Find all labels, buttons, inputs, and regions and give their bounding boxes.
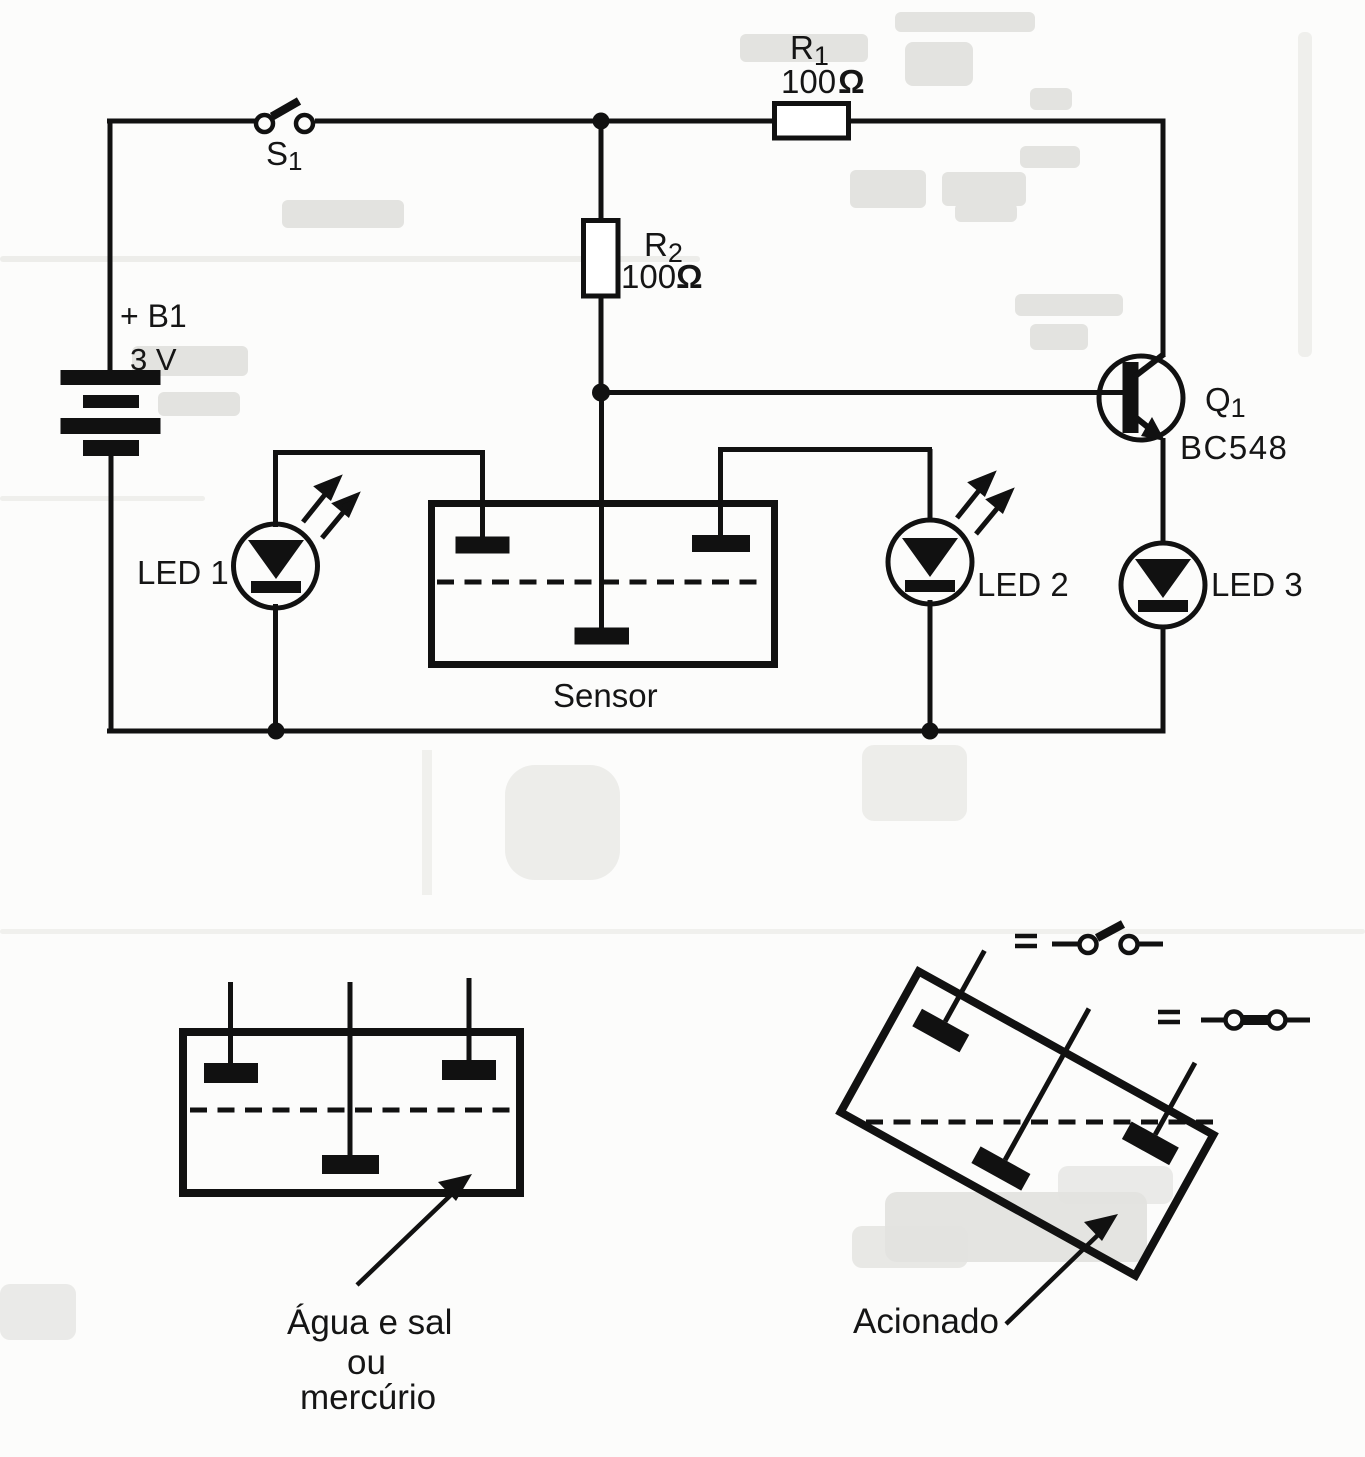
- LED1 emission arrows: [303, 479, 356, 538]
- tilted sensor group (actuated): [841, 924, 1240, 1275]
- sensor right electrode: [692, 452, 750, 552]
- resistor R1: [775, 104, 849, 139]
- annotation arrow acionado: [1006, 1214, 1118, 1324]
- tilted right electrode: [1122, 1050, 1219, 1165]
- svg-text:BC548: BC548: [1180, 429, 1288, 466]
- wire top rail left segment: [107, 119, 257, 124]
- legend closed switch equivalence: [1158, 1012, 1310, 1029]
- svg-text:Água e sal: Água e sal: [287, 1303, 452, 1342]
- sensor left electrode: [456, 455, 510, 554]
- wire left vertical lower (battery minus): [109, 456, 114, 731]
- wire bottom rail: [107, 729, 1166, 734]
- LED LED2: [888, 449, 972, 731]
- wire top rail right segment: [847, 119, 1166, 124]
- svg-text:Acionado: Acionado: [853, 1302, 999, 1341]
- legend open switch equivalence: [1015, 924, 1163, 953]
- svg-text:mercúrio: mercúrio: [300, 1378, 436, 1417]
- wire base horizontal: [601, 390, 1123, 395]
- wire top rail middle segment: [315, 119, 777, 124]
- sensor liquid level dashed line: [437, 580, 766, 585]
- wire R2 lower lead: [599, 294, 604, 394]
- wire sensor right electrode to LED2: [718, 447, 932, 452]
- wire left vertical (battery plus): [108, 119, 113, 372]
- wire emitter to LED3: [1161, 438, 1166, 544]
- lower-left liquid level dashed line: [190, 1108, 514, 1113]
- lower-left left electrode: [204, 982, 258, 1083]
- wire LED3 cathode to rail: [1161, 625, 1166, 733]
- sensor box: [432, 504, 775, 665]
- svg-text:Sensor: Sensor: [553, 677, 658, 714]
- wire LED1 top corner to sensor: [273, 450, 485, 455]
- wire right rail upper (collector feed): [1161, 121, 1166, 357]
- tilted left electrode: [912, 938, 1008, 1053]
- tilted sensor box: [841, 971, 1214, 1275]
- node junction LED2 bottom rail: [922, 723, 939, 740]
- svg-text:100Ω: 100Ω: [621, 258, 703, 295]
- resistor R2: [584, 221, 619, 297]
- battery B1: [61, 370, 161, 456]
- svg-text:100Ω: 100Ω: [781, 63, 865, 100]
- svg-text:ou: ou: [347, 1343, 386, 1382]
- node junction LED1 bottom rail: [268, 723, 285, 740]
- lower-left sensor box (upright): [183, 1032, 520, 1193]
- tilted sensor liquid level dashed line (horizontal): [866, 1120, 1213, 1125]
- wire R2 upper lead: [599, 121, 604, 222]
- svg-text:LED 2: LED 2: [977, 566, 1069, 603]
- LED LED1: [234, 452, 318, 731]
- lower-left centre electrode: [322, 982, 379, 1174]
- svg-text:3 V: 3 V: [130, 342, 177, 377]
- node junction base (R2 bottom / base wire): [592, 384, 610, 402]
- wire sensor centre electrode stem upper: [599, 392, 604, 632]
- svg-text:+ B1: + B1: [120, 298, 187, 334]
- node junction top (R2 top): [593, 113, 610, 130]
- lower-left right electrode: [442, 978, 496, 1080]
- svg-text:LED 3: LED 3: [1211, 566, 1303, 603]
- sensor centre electrode: [575, 628, 630, 645]
- svg-text:LED 1: LED 1: [137, 554, 229, 591]
- annotation arrow agua: [357, 1174, 472, 1285]
- transistor Q1: [1099, 354, 1183, 441]
- switch S1: [256, 101, 313, 132]
- tilted centre electrode: [971, 995, 1114, 1191]
- LED2 emission arrows: [957, 475, 1010, 534]
- LED LED3: [1121, 543, 1205, 627]
